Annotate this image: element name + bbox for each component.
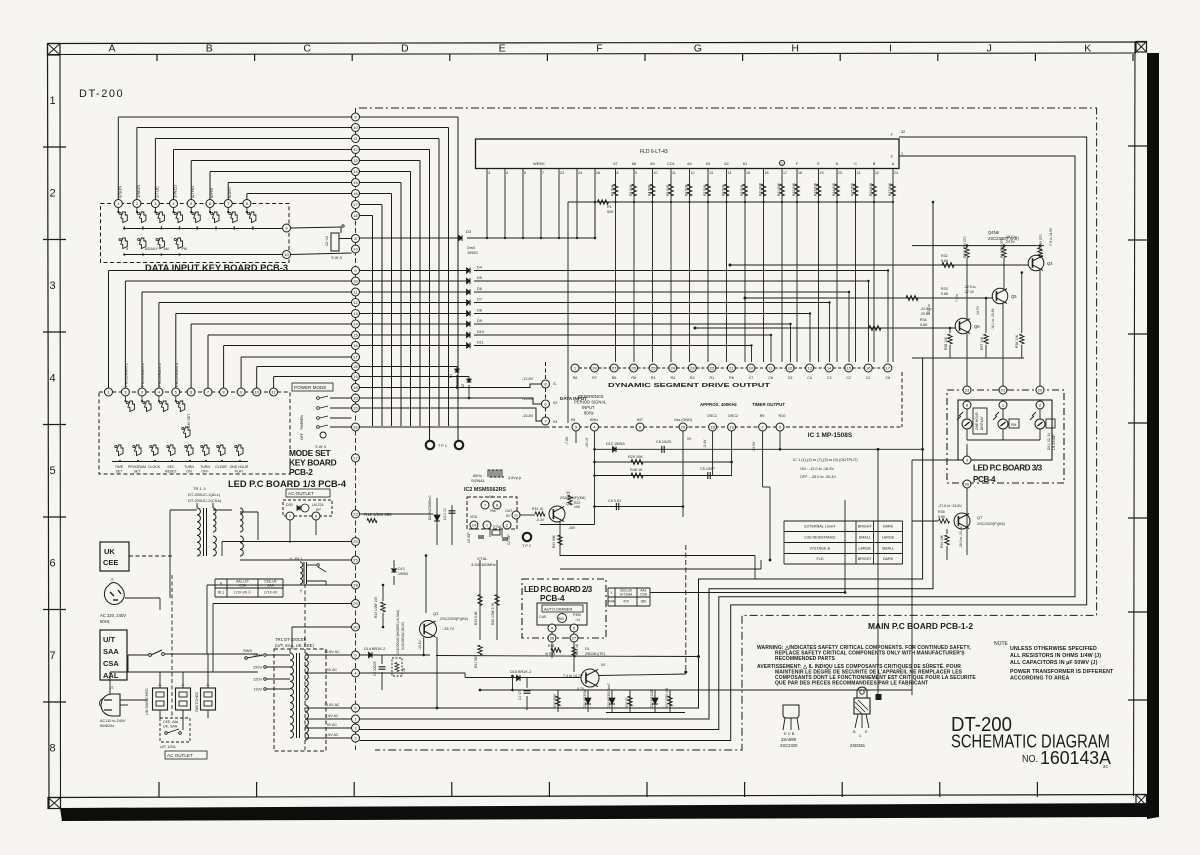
svg-text:-15.8V: -15.8V (522, 414, 534, 418)
svg-text:UN SWITCHED: UN SWITCHED (145, 688, 149, 715)
svg-text:IC 1 (1),(2) to (7),(3) to (9: IC 1 (1),(2) to (7),(3) to (9) (OUTPUT) (793, 457, 858, 462)
svg-text:C3 0.01: C3 0.01 (443, 508, 447, 520)
svg-text:POWER MODE: POWER MODE (294, 385, 326, 390)
svg-text:63: 63 (706, 162, 710, 166)
svg-text:Q7: Q7 (977, 515, 983, 520)
svg-text:DT-200UC-1(ALL): DT-200UC-1(ALL) (188, 492, 221, 497)
svg-text:2/TUE: 2/TUE (154, 186, 159, 198)
svg-text:C4: C4 (807, 376, 812, 380)
svg-text:R33: R33 (941, 287, 948, 291)
svg-text:10: 10 (353, 125, 358, 130)
svg-text:5/FRI: 5/FRI (209, 188, 214, 198)
svg-text:26: 26 (596, 171, 600, 175)
svg-text:PCB-2: PCB-2 (289, 467, 313, 477)
svg-text:R6 50K: R6 50K (685, 184, 689, 196)
svg-text:80Hz: 80Hz (584, 411, 594, 416)
svg-text:INPUT: INPUT (582, 405, 595, 410)
svg-text:10: 10 (749, 365, 754, 370)
svg-text:ON: ON (300, 414, 304, 420)
svg-text:TR1 DT-200CEE: TR1 DT-200CEE (275, 637, 307, 642)
svg-text:CLEAR: CLEAR (215, 465, 227, 469)
svg-text:R32: R32 (941, 254, 948, 258)
svg-text:5.6K: 5.6K (920, 323, 928, 327)
svg-text:U/T, USA: U/T, USA (160, 745, 176, 749)
svg-text:C8 30P: C8 30P (467, 532, 471, 543)
svg-text:D6: D6 (477, 287, 482, 291)
svg-text:14: 14 (472, 522, 477, 527)
svg-text:8: 8 (617, 171, 619, 175)
svg-text:R17 50K: R17 50K (888, 182, 892, 196)
svg-text:D: D (401, 43, 409, 55)
svg-text:14: 14 (827, 365, 832, 370)
svg-text:R25 1K: R25 1K (625, 696, 629, 708)
svg-text:VOLTAGE ⊕: VOLTAGE ⊕ (810, 546, 831, 550)
svg-text:R48 1K: R48 1K (630, 468, 643, 472)
svg-text:DAY SET: DAY SET (187, 414, 191, 428)
svg-text:TIME: TIME (115, 465, 124, 469)
svg-text:R3 50K: R3 50K (629, 184, 633, 196)
svg-text:0/SUN: 0/SUN (117, 186, 122, 198)
svg-text:1/MON: 1/MON (136, 185, 141, 198)
svg-text:R13 50K: R13 50K (814, 182, 818, 196)
svg-text:1: 1 (49, 95, 55, 107)
svg-text:R10: R10 (779, 414, 786, 418)
svg-text:-23.5 to: -23.5 to (927, 304, 931, 315)
svg-text:D4: D4 (477, 266, 482, 270)
svg-text:61: 61 (743, 162, 747, 166)
svg-text:21: 21 (857, 171, 861, 175)
svg-text:19: 19 (820, 171, 824, 175)
svg-text:R1: R1 (607, 205, 612, 209)
svg-text:D9: D9 (477, 319, 482, 323)
svg-text:5.6K: 5.6K (941, 259, 949, 263)
svg-text:16: 16 (353, 191, 358, 196)
svg-text:CdS RESISTANCE: CdS RESISTANCE (804, 535, 836, 539)
svg-text:15953: 15953 (467, 251, 478, 255)
svg-text:PM: PM (1011, 423, 1016, 427)
svg-text:SMALL: SMALL (859, 535, 871, 539)
svg-text:C1 470: C1 470 (518, 689, 522, 700)
svg-text:D8: D8 (477, 309, 482, 313)
svg-text:R44: R44 (548, 644, 554, 648)
svg-text:R23 50K: R23 50K (552, 534, 556, 548)
svg-text:0V AC: 0V AC (327, 668, 338, 672)
svg-text:16: 16 (353, 424, 358, 429)
svg-text:R27 UFW 470: R27 UFW 470 (665, 688, 669, 708)
svg-text:DISPLAY: DISPLAY (980, 416, 984, 430)
svg-text:13: 13 (709, 171, 713, 175)
svg-text:R14 50K: R14 50K (832, 182, 836, 196)
svg-text:DARK: DARK (883, 557, 894, 561)
svg-text:D: D (836, 162, 839, 166)
svg-text:7.1 to: 7.1 to (955, 294, 959, 302)
svg-text:R2: R2 (690, 376, 695, 380)
svg-text:R9: R9 (760, 414, 765, 418)
svg-text:DT-200: DT-200 (79, 88, 124, 100)
svg-text:25: 25 (651, 365, 656, 370)
svg-text:17: 17 (783, 171, 787, 175)
svg-text:R8: R8 (729, 376, 734, 380)
svg-text:80Hz: 80Hz (590, 418, 599, 422)
svg-text:AC OUTLET: AC OUTLET (288, 491, 314, 496)
svg-text:3.932160MHz: 3.932160MHz (471, 562, 496, 567)
svg-text:U/T: U/T (103, 635, 116, 644)
svg-text:BRIGHT: BRIGHT (858, 557, 873, 561)
svg-text:30: 30 (353, 624, 358, 629)
svg-text:1.6V AC: 1.6V AC (325, 733, 339, 737)
svg-text:RL1: RL1 (218, 591, 224, 595)
svg-text:10: 10 (254, 389, 259, 394)
svg-text:Q4: Q4 (1047, 261, 1053, 266)
svg-text:69: 69 (650, 162, 654, 166)
svg-text:17: 17 (353, 455, 358, 460)
svg-text:5: 5 (524, 171, 526, 175)
svg-text:62: 62 (724, 162, 728, 166)
svg-text:15: 15 (353, 332, 358, 337)
svg-text:R34: R34 (920, 318, 927, 322)
svg-text:0.01/250VAC(MOGEE,UK,SAA): 0.01/250VAC(MOGEE,UK,SAA) (396, 610, 400, 655)
svg-text:LARGE: LARGE (858, 546, 871, 550)
svg-text:-0.3V: -0.3V (536, 518, 545, 522)
svg-text:R2 50K: R2 50K (611, 184, 615, 196)
svg-text:R19 1/2W 390: R19 1/2W 390 (364, 512, 392, 517)
svg-text:17: 17 (886, 365, 891, 370)
svg-text:BRIGHT: BRIGHT (858, 525, 873, 529)
svg-text:10: 10 (353, 278, 358, 283)
svg-text:R26 1/2W 2.7K: R26 1/2W 2.7K (491, 602, 495, 625)
svg-text:R1: R1 (710, 376, 715, 380)
svg-text:FLD 6-LT-43: FLD 6-LT-43 (640, 149, 668, 155)
svg-text:DARK: DARK (883, 525, 894, 529)
svg-text:T P 2: T P 2 (522, 544, 531, 548)
svg-text:D15 BR1K-2: D15 BR1K-2 (510, 670, 531, 674)
svg-text:SET: SET (134, 470, 142, 474)
svg-text:29: 29 (353, 601, 358, 606)
svg-text:R57 10K: R57 10K (980, 336, 984, 350)
svg-text:SWITCHED: SWITCHED (195, 691, 199, 712)
svg-text:19: 19 (353, 374, 358, 379)
svg-text:12: 12 (353, 147, 358, 152)
svg-text:LM-224: LM-224 (312, 503, 324, 507)
svg-text:ON: ON (186, 470, 192, 474)
svg-text:Q6: Q6 (974, 324, 980, 329)
svg-text:28: 28 (592, 365, 597, 370)
svg-text:28: 28 (353, 582, 358, 587)
svg-text:D31, 32, 34: D31, 32, 34 (1047, 433, 1051, 450)
svg-text:C9 0.01: C9 0.01 (608, 499, 621, 503)
svg-text:8: 8 (126, 247, 128, 251)
svg-text:C4 33P: C4 33P (507, 534, 511, 545)
svg-text:120V: 120V (253, 678, 262, 682)
svg-text:AM: AM (163, 247, 168, 251)
svg-text:17: 17 (353, 354, 358, 359)
svg-text:1.6V AC: 1.6V AC (325, 714, 339, 718)
svg-text:D1: D1 (449, 374, 453, 378)
svg-text:COL: COL (667, 162, 675, 166)
svg-text:C5 100P: C5 100P (700, 467, 715, 471)
svg-text:15: 15 (746, 171, 750, 175)
svg-text:R50: R50 (558, 617, 564, 621)
svg-text:D5: D5 (477, 276, 482, 280)
svg-text:17: 17 (353, 202, 358, 207)
svg-text:7: 7 (49, 650, 55, 662)
svg-text:QUE PAR DES PIECES RECOMMA: QUE PAR DES PIECES RECOMMANDEES PAR LE F… (775, 681, 928, 687)
svg-text:10.8V AC: 10.8V AC (324, 650, 340, 654)
svg-text:50Hz: 50Hz (100, 619, 110, 624)
svg-text:3: 3 (49, 280, 55, 292)
svg-text:2SC2320(F)(K6): 2SC2320(F)(K6) (977, 522, 1006, 526)
svg-text:R7 50K: R7 50K (703, 184, 707, 196)
svg-text:-22.5 to: -22.5 to (964, 285, 976, 289)
svg-text:C1: C1 (866, 376, 871, 380)
svg-text:3.5Vp-p: 3.5Vp-p (508, 476, 521, 480)
svg-text:LED P.C BOARD 2/3: LED P.C BOARD 2/3 (524, 585, 593, 594)
svg-text:PERIOD SIGNAL: PERIOD SIGNAL (574, 400, 607, 405)
svg-text:RESET: RESET (165, 470, 178, 474)
svg-text:23: 23 (353, 539, 358, 544)
svg-text:4/THU: 4/THU (190, 186, 195, 198)
svg-text:18: 18 (353, 385, 358, 390)
svg-text:15: 15 (846, 365, 851, 370)
svg-text:10: 10 (353, 246, 358, 251)
svg-text:10K: 10K (574, 505, 581, 509)
svg-text:C: C (854, 162, 857, 166)
svg-text:50K: 50K (607, 210, 614, 214)
svg-text:OUT: OUT (505, 509, 513, 513)
svg-text:C7: C7 (749, 376, 754, 380)
svg-text:MAIN P.C BOARD PCB-1-2: MAIN P.C BOARD PCB-1-2 (868, 621, 973, 631)
svg-text:13: 13 (353, 158, 358, 163)
svg-text:CSA: CSA (103, 659, 119, 668)
svg-text:14: 14 (728, 171, 732, 175)
svg-text:IC 1 MP-1508S: IC 1 MP-1508S (808, 432, 853, 439)
svg-text:4: 4 (506, 171, 508, 175)
svg-text:18: 18 (710, 424, 715, 429)
svg-text:-3.4V: -3.4V (703, 439, 707, 448)
svg-text:C6: C6 (768, 376, 773, 380)
svg-text:DYNAMIC SEGMENT DRIVE OUTPU: DYNAMIC SEGMENT DRIVE OUTPUT (608, 383, 771, 389)
svg-text:X'TAL: X'TAL (477, 556, 488, 561)
svg-text:10: 10 (284, 252, 289, 257)
svg-text:4: 4 (49, 373, 55, 385)
svg-text:K4: K4 (553, 420, 557, 424)
svg-text:220V: 220V (253, 666, 262, 670)
svg-text:CEE, AAL: CEE, AAL (163, 720, 179, 724)
svg-text:CLOCK: CLOCK (148, 465, 161, 469)
svg-text:25: 25 (353, 557, 358, 562)
svg-text:22: 22 (710, 365, 715, 370)
svg-text:68: 68 (632, 162, 636, 166)
svg-text:160143A: 160143A (1040, 748, 1111, 768)
svg-text:2SA999(F)(K6): 2SA999(F)(K6) (560, 496, 586, 500)
svg-text:R5 50K: R5 50K (666, 184, 670, 196)
svg-text:(U/T, SAA, UK, CEE): (U/T, SAA, UK, CEE) (275, 643, 314, 648)
svg-text:D14 BR1K-2: D14 BR1K-2 (364, 647, 385, 651)
svg-text:IC2 MSM5562RS: IC2 MSM5562RS (464, 487, 506, 493)
svg-text:AUTO DIMMER: AUTO DIMMER (544, 607, 572, 612)
svg-text:NOTE: NOTE (994, 641, 1009, 647)
svg-text:R10 50K: R10 50K (759, 182, 763, 196)
svg-text:E: E (817, 162, 820, 166)
svg-text:PM: PM (182, 247, 187, 251)
svg-text:UK, SAA: UK, SAA (163, 725, 178, 729)
svg-text:B: B (206, 43, 213, 55)
svg-text:R6 UFW 270: R6 UFW 270 (1000, 238, 1004, 258)
svg-text:DT-200UC-2(CSA): DT-200UC-2(CSA) (188, 498, 222, 503)
svg-text:9: 9 (635, 171, 637, 175)
svg-text:UK: UK (104, 547, 115, 556)
svg-text:R4 50K: R4 50K (648, 184, 652, 196)
svg-text:23: 23 (690, 365, 695, 370)
svg-text:D1: D1 (585, 647, 590, 651)
svg-text:26: 26 (631, 365, 636, 370)
svg-text:80Hz: 80Hz (473, 474, 482, 478)
svg-text:21: 21 (1001, 387, 1006, 392)
svg-text:LED P.C BOARD 3/3: LED P.C BOARD 3/3 (973, 464, 1043, 473)
svg-text:WEEK: WEEK (533, 161, 545, 166)
svg-text:3: 3 (488, 171, 490, 175)
svg-text:APPROX. 400KHz: APPROX. 400KHz (700, 402, 738, 407)
svg-text:IC: IC (553, 382, 557, 386)
svg-text:24: 24 (578, 171, 582, 175)
svg-text:14: 14 (353, 169, 358, 174)
svg-text:10: 10 (654, 171, 658, 175)
svg-text:R39 10K: R39 10K (940, 534, 944, 548)
svg-text:67: 67 (613, 162, 617, 166)
svg-text:I: I (889, 43, 892, 55)
svg-text:12: 12 (691, 171, 695, 175)
svg-text:Q3: Q3 (433, 611, 439, 616)
svg-text:32: 32 (901, 130, 905, 134)
svg-text:16: 16 (866, 365, 871, 370)
svg-text:PCB-4: PCB-4 (540, 594, 565, 603)
svg-text:6: 6 (49, 558, 55, 570)
svg-text:TR 1 ⚠: TR 1 ⚠ (193, 486, 207, 491)
svg-text:0V: 0V (687, 437, 692, 441)
svg-text:R24 1K: R24 1K (575, 643, 579, 655)
svg-text:R30 5.6K: R30 5.6K (474, 610, 478, 625)
svg-text:15: 15 (353, 395, 358, 400)
svg-text:2: 2 (49, 188, 55, 200)
svg-text:OFF : -25.0 to -30.4V: OFF : -25.0 to -30.4V (800, 475, 836, 479)
svg-text:47K: 47K (623, 600, 630, 604)
svg-text:P390: P390 (573, 613, 581, 617)
svg-text:ACCORDING TO AREA: ACCORDING TO AREA (1010, 676, 1069, 682)
svg-text:-12.6V: -12.6V (522, 377, 534, 381)
svg-text:15: 15 (353, 405, 358, 410)
svg-text:0V AC: 0V AC (327, 723, 338, 727)
svg-text:0V: 0V (566, 491, 571, 495)
svg-text:R31 1K: R31 1K (532, 507, 544, 511)
svg-text:TURN: TURN (200, 465, 210, 469)
svg-text:VDD: VDD (470, 515, 478, 519)
svg-text:20: 20 (1038, 387, 1043, 392)
svg-text:D13: D13 (398, 567, 405, 571)
svg-text:0.01/400VAC(MUV): 0.01/400VAC(MUV) (401, 622, 405, 650)
svg-text:OFF: OFF (300, 433, 304, 440)
svg-text:-19.7 to: -19.7 to (1005, 235, 1017, 239)
svg-text:15953: 15953 (398, 572, 408, 576)
svg-text:SMALL: SMALL (882, 546, 894, 550)
svg-text:D10: D10 (477, 330, 484, 334)
svg-text:C2: C2 (846, 376, 851, 380)
svg-text:C3: C3 (827, 376, 832, 380)
svg-text:11: 11 (672, 171, 676, 175)
svg-text:2SD361(TE): 2SD361(TE) (585, 652, 605, 656)
svg-text:-16V: -16V (568, 526, 576, 530)
svg-text:KEY BOARD: KEY BOARD (289, 458, 337, 468)
svg-text:-14: -14 (575, 618, 580, 622)
svg-text:R8 50K: R8 50K (722, 184, 726, 196)
svg-text:110V: 110V (253, 688, 262, 692)
svg-text:39K: 39K (641, 600, 648, 604)
svg-text:R6: R6 (612, 376, 617, 380)
svg-text:A: A (892, 162, 895, 166)
svg-text:13: 13 (353, 311, 358, 316)
svg-text:G: G (694, 43, 702, 55)
svg-text:-33.7V: -33.7V (443, 627, 455, 631)
svg-text:R17 UFW 270: R17 UFW 270 (1039, 234, 1043, 256)
svg-text:22: 22 (353, 511, 358, 516)
svg-text:REFERENCE: REFERENCE (578, 394, 604, 399)
svg-text:AC OUTLET: AC OUTLET (167, 753, 193, 758)
svg-text:R7: R7 (592, 376, 597, 380)
svg-text:ONE HOUR: ONE HOUR (975, 412, 979, 430)
svg-text:H: H (791, 43, 799, 55)
svg-text:2SD361: 2SD361 (850, 743, 866, 748)
svg-text:ONE HOUR: ONE HOUR (230, 465, 249, 469)
svg-text:MODE SET: MODE SET (289, 448, 332, 458)
svg-text:16: 16 (353, 343, 358, 348)
svg-text:SEC: SEC (167, 465, 175, 469)
svg-text:PROGRAM: PROGRAM (128, 465, 146, 469)
svg-text:LY1F-V9: LY1F-V9 (264, 591, 277, 595)
svg-text:27: 27 (572, 635, 577, 640)
svg-text:Q4N6: Q4N6 (988, 230, 1000, 235)
svg-text:INT: INT (637, 417, 644, 422)
svg-text:C6 10/25: C6 10/25 (656, 440, 671, 444)
svg-text:R29 20K: R29 20K (628, 455, 643, 459)
svg-text:3/WED: 3/WED (173, 185, 178, 198)
svg-text:F: F (596, 43, 602, 55)
svg-text:RECOMMENDED PARTS: RECOMMENDED PARTS (775, 656, 836, 662)
svg-text:21: 21 (729, 365, 734, 370)
svg-text:C5: C5 (788, 376, 793, 380)
svg-text:-7.8V: -7.8V (565, 436, 569, 445)
svg-text:2SC2320: 2SC2320 (780, 743, 798, 748)
svg-text:6/SAT: 6/SAT (227, 186, 232, 198)
svg-text:⚠: ⚠ (181, 682, 185, 687)
svg-text:R36 10K: R36 10K (1015, 334, 1019, 348)
svg-text:R4: R4 (651, 376, 656, 380)
svg-text:64: 64 (687, 162, 691, 166)
svg-text:2SC2320(F)(K6): 2SC2320(F)(K6) (440, 617, 469, 621)
svg-text:B: B (873, 162, 876, 166)
svg-text:IN: IN (506, 514, 510, 518)
svg-text:T P 1: T P 1 (438, 444, 447, 448)
svg-text:CdS: CdS (539, 615, 547, 619)
svg-text:FLD: FLD (817, 557, 824, 561)
svg-text:0V: 0V (601, 663, 606, 667)
svg-text:TURN: TURN (184, 465, 194, 469)
svg-text:24: 24 (671, 365, 676, 370)
svg-text:20: 20 (681, 424, 686, 429)
svg-text:OSC1: OSC1 (707, 414, 717, 418)
svg-text:ALL RESISTORS IN OHMS 1/4W: ALL RESISTORS IN OHMS 1/4W (J) (1010, 653, 1101, 659)
svg-text:SW5: SW5 (243, 648, 252, 653)
svg-text:R35: R35 (938, 510, 945, 514)
svg-text:2C: 2C (1103, 764, 1108, 769)
